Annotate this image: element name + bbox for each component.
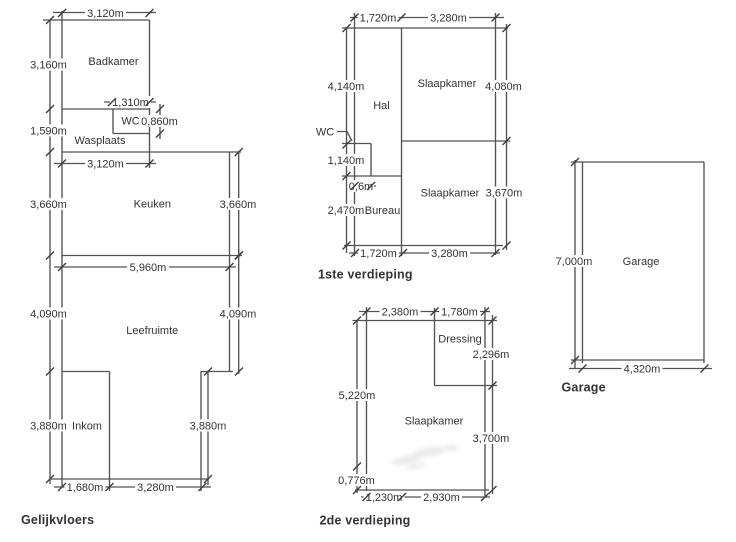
svg-text:Badkamer: Badkamer [88, 56, 138, 68]
wire: 1st floor left wall [354, 13, 356, 256]
svg-text:1,140m: 1,140m [328, 155, 365, 167]
dimension line 1st right [506, 24, 508, 250]
svg-text:3,660m: 3,660m [30, 199, 67, 211]
floor titles [21, 268, 606, 528]
svg-text:4,080m: 4,080m [485, 81, 522, 93]
wire: right outer wall lower [200, 372, 202, 492]
wire: garage left wall [582, 162, 584, 363]
svg-text:5,220m: 5,220m [339, 390, 376, 402]
wire: 1st floor bottom wall [344, 245, 503, 247]
svg-text:5,960m: 5,960m [130, 262, 167, 274]
svg-text:3,700m: 3,700m [473, 433, 510, 445]
ticks 2nd top dim [363, 308, 490, 316]
svg-text:3,880m: 3,880m [30, 421, 67, 433]
dimension line bottom 1,680m 3,280m [54, 486, 211, 488]
svg-text:Garage: Garage [562, 381, 606, 395]
dimension line 0,6m [349, 185, 376, 187]
wire: WC bottom wall [113, 133, 150, 135]
svg-text:Slaapkamer: Slaapkamer [418, 78, 477, 90]
svg-text:Slaapkamer: Slaapkamer [421, 188, 480, 200]
wire: keuken top wall [62, 151, 241, 153]
room labels [72, 56, 659, 433]
dimension line 2nd right [492, 315, 494, 494]
wire: 2nd floor right wall [484, 307, 486, 497]
dimension line 5,960m [54, 266, 236, 268]
ticks ground bottom dim [58, 483, 207, 491]
svg-text:Gelijkvloers: Gelijkvloers [21, 513, 94, 527]
svg-text:4,090m: 4,090m [30, 309, 67, 321]
ticks 4,090m right [235, 252, 243, 376]
dimension line 3,880m right [207, 372, 209, 486]
dimension line 2nd bottom [361, 496, 490, 498]
wire: badkamer right wall + extension [149, 20, 151, 168]
svg-text:3,160m: 3,160m [30, 60, 67, 72]
dimension line 3,120m keuken [54, 163, 156, 165]
svg-text:1,720m: 1,720m [360, 13, 397, 25]
svg-text:WC: WC [316, 127, 334, 139]
wire: dressing bottom wall [435, 385, 498, 387]
ticks 1st left dim [343, 24, 351, 250]
wire: keuken bottom wall [62, 255, 242, 257]
svg-text:3,280m: 3,280m [430, 13, 467, 25]
wire: WC top wall [342, 143, 371, 145]
svg-text:3,670m: 3,670m [486, 188, 523, 200]
white backgrounds for dimension texts [29, 7, 663, 503]
svg-text:1,230m: 1,230m [366, 492, 403, 504]
wire: WC leader line [337, 132, 352, 142]
dimension line garage left [574, 160, 576, 369]
dimension line 2nd left [356, 320, 358, 493]
wire: garage right wall [703, 162, 705, 363]
wire: 2nd floor top wall [353, 320, 498, 322]
svg-text:4,090m: 4,090m [220, 309, 257, 321]
ticks garage bottom dim [579, 365, 709, 373]
wire: WC left wall [112, 109, 114, 134]
svg-text:Leefruimte: Leefruimte [126, 325, 178, 337]
ticks 3,120m keuken [58, 160, 154, 168]
wire: 1st floor top wall [342, 27, 508, 29]
svg-text:1,720m: 1,720m [360, 248, 397, 260]
svg-text:Slaapkamer: Slaapkamer [405, 416, 464, 428]
dimension line 0,860m [159, 104, 161, 139]
wire: slaapkamer divider wall [402, 140, 511, 142]
dimension line 1st bottom [349, 252, 500, 254]
svg-text:1ste verdieping: 1ste verdieping [318, 268, 413, 282]
ticks 0,860m [156, 105, 164, 138]
ticks 1st right dim [503, 24, 511, 250]
dimension line 1st left [346, 27, 348, 253]
svg-text:3,280m: 3,280m [431, 248, 468, 260]
svg-text:3,120m: 3,120m [87, 8, 124, 20]
svg-text:3,660m: 3,660m [220, 199, 257, 211]
svg-text:4,140m: 4,140m [328, 81, 365, 93]
wire: left outer wall [61, 11, 63, 486]
svg-text:2de verdieping: 2de verdieping [320, 514, 411, 528]
svg-text:2,296m: 2,296m [473, 349, 510, 361]
svg-text:2,930m: 2,930m [423, 492, 460, 504]
svg-text:2,380m: 2,380m [382, 307, 419, 319]
svg-text:Inkom: Inkom [72, 421, 102, 433]
wire: badkamer top wall [43, 19, 150, 21]
dimension line 1,310m [104, 101, 156, 103]
wire: hal divider wall [401, 28, 403, 256]
dimension texts [30, 8, 660, 504]
faint watermark smudge [391, 445, 460, 471]
svg-text:Garage: Garage [623, 256, 660, 268]
dimension line garage bottom [569, 368, 712, 370]
svg-text:WC: WC [121, 116, 139, 128]
dimension line left column [49, 20, 51, 484]
svg-text:1,590m: 1,590m [30, 126, 67, 138]
ticks 2nd bottom dim [363, 493, 490, 501]
svg-text:Bureau: Bureau [365, 205, 400, 217]
svg-text:7,000m: 7,000m [556, 256, 593, 268]
wire: 2nd floor left wall [366, 307, 368, 499]
svg-text:3,120m: 3,120m [87, 159, 124, 171]
ticks 1st bottom dim [351, 249, 500, 257]
ticks 1st top dim [351, 14, 500, 22]
ticks 0,6m dim [351, 182, 376, 190]
dimension line 3,120m top [53, 12, 156, 14]
svg-text:Dressing: Dressing [438, 334, 481, 346]
svg-text:1,310m: 1,310m [112, 97, 149, 109]
svg-text:Wasplaats: Wasplaats [75, 135, 126, 147]
wire: WC right wall [370, 144, 372, 177]
ticks 2nd left dim [353, 317, 361, 495]
svg-text:1,680m: 1,680m [67, 482, 104, 494]
svg-text:0,776m: 0,776m [338, 475, 375, 487]
wire: dressing left wall [434, 308, 436, 386]
svg-text:Keuken: Keuken [134, 199, 171, 211]
svg-text:2,470m: 2,470m [328, 205, 365, 217]
wire: bureau top wall [342, 175, 402, 177]
ticks 2nd right dim [489, 317, 497, 495]
svg-text:3,880m: 3,880m [190, 421, 227, 433]
ticks 1,310m [108, 98, 154, 106]
dimension line 3,660m right [238, 152, 240, 258]
wire: step wall [201, 371, 234, 373]
wire: garage top wall [571, 161, 704, 163]
ticks 3,660m right [235, 148, 243, 260]
wire: inkom top wall [62, 371, 110, 373]
dimension line 4,090m right [238, 250, 240, 374]
ticks garage left dim [571, 158, 579, 364]
wire: 2nd floor bottom wall [355, 489, 489, 491]
svg-text:4,320m: 4,320m [624, 364, 661, 376]
ticks 5,960m [58, 263, 234, 271]
ticks ground left dim [46, 16, 54, 483]
svg-text:1,780m: 1,780m [441, 307, 478, 319]
wire: inkom right wall [109, 372, 111, 492]
wire: right outer wall upper [229, 152, 231, 372]
svg-text:3,280m: 3,280m [137, 482, 174, 494]
ticks ground top dim [58, 9, 154, 17]
dimension line 1st top [350, 17, 504, 19]
dimension line 2nd top [359, 311, 490, 313]
wire: bottom wall [51, 478, 209, 480]
svg-text:0,860m: 0,860m [141, 116, 178, 128]
ticks 3,880m right [204, 368, 212, 484]
wire: garage bottom wall [571, 359, 704, 361]
svg-text:Hal: Hal [373, 100, 390, 112]
wire: badkamer bottom wall [62, 108, 150, 110]
wire: 1st floor right wall [495, 13, 497, 255]
